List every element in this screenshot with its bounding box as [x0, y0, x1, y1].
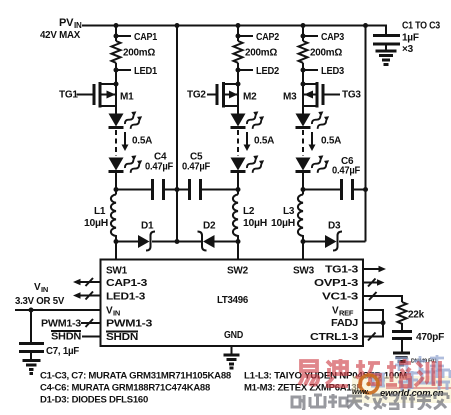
svg-text:TG1-3: TG1-3 [325, 265, 359, 276]
svg-text:CAP3: CAP3 [321, 32, 345, 43]
ground for C7 [23, 361, 41, 374]
inductor L2 10uH [233, 195, 267, 242]
inductor L3 10uH [271, 195, 303, 242]
svg-text:LED1: LED1 [134, 66, 158, 77]
svg-text:C1 TO C3: C1 TO C3 [402, 21, 441, 32]
ground for C1-C3 [376, 51, 397, 65]
wire ch1 to SW1 [115, 242, 117, 261]
capacitor C5 [177, 152, 238, 201]
svg-text:GND: GND [224, 330, 243, 341]
junction on rail ch2 [236, 23, 241, 28]
svg-text:VC1-3: VC1-3 [322, 292, 359, 303]
transistor M2 (PMOS) [187, 82, 257, 108]
svg-text:1µF: 1µF [402, 33, 419, 44]
resistor R2 200mOhm [234, 41, 243, 63]
wire ch2 to SW2 [237, 242, 239, 261]
capacitor C6 [303, 156, 366, 200]
LED D-ch1-a [109, 109, 144, 131]
watermark red char 4 [386, 359, 411, 386]
pin GND [224, 330, 243, 355]
current arrow 0.5A ch2 [244, 132, 275, 151]
node VIN external [29, 308, 34, 313]
svg-text:200mΩ: 200mΩ [310, 48, 342, 59]
svg-text:M3: M3 [283, 92, 297, 103]
watermark pale panel [352, 376, 451, 403]
node VIN label [15, 282, 65, 307]
watermark red char 3 [356, 360, 380, 386]
svg-text:M2: M2 [243, 92, 257, 103]
LED D-ch3-b [296, 153, 331, 175]
wire ch3 column top [302, 26, 304, 42]
pin PWM1-3 [41, 319, 153, 330]
svg-text:C1-C3, C7: MURATA GRM31MR71H10: C1-C3, C7: MURATA GRM31MR71H105KA88 [40, 371, 231, 382]
node ch3 SW/diode row [301, 239, 306, 244]
pin VC1-3 [322, 292, 402, 303]
svg-text:0.5A: 0.5A [132, 136, 152, 147]
svg-text:CTRL1-3: CTRL1-3 [310, 332, 359, 343]
pin VIN [15, 306, 120, 318]
svg-text:0.47µF: 0.47µF [182, 162, 210, 173]
wire dashed LED string ch3 [302, 130, 304, 156]
node CAP1 [114, 34, 119, 39]
svg-text:PWM1-3: PWM1-3 [106, 319, 153, 330]
svg-text:IN: IN [113, 309, 120, 318]
node ch2 cap row [236, 187, 241, 192]
node ch2 SW/diode row [236, 239, 241, 244]
pin FADJ [331, 318, 386, 329]
svg-text:V: V [34, 282, 41, 293]
svg-text:TG2: TG2 [187, 90, 206, 101]
junction on rail ch3 [301, 23, 306, 28]
watermark blue glyphs upper [395, 355, 444, 372]
svg-text:0.5A: 0.5A [254, 136, 274, 147]
wire R1 to M1 source [115, 63, 117, 114]
pin SHDN [51, 331, 138, 343]
pin CTRL1-3 [310, 323, 383, 343]
watermark red char 1 [299, 361, 318, 386]
ground for GND pin [224, 355, 240, 368]
svg-text:M1: M1 [120, 92, 134, 103]
svg-text:SHDN: SHDN [51, 332, 81, 343]
LED D-ch2-b [231, 153, 266, 175]
node CAP3 [301, 34, 306, 39]
svg-text:C7, 1µF: C7, 1µF [46, 346, 79, 357]
svg-text:200mΩ: 200mΩ [245, 48, 277, 59]
svg-text:470pF: 470pF [416, 332, 444, 343]
pin VREF [332, 306, 383, 323]
wire R2 to M2 [237, 63, 239, 114]
svg-text:IN: IN [41, 285, 48, 294]
svg-text:IN: IN [74, 21, 82, 30]
svg-text:D3: D3 [328, 221, 341, 232]
IC U1 LT3496 box [101, 260, 364, 347]
diode D1 (schottky) [116, 221, 177, 251]
svg-text:0.47µF: 0.47µF [332, 166, 360, 177]
svg-text:3.3V OR 5V: 3.3V OR 5V [15, 296, 65, 307]
resistor R1 200mOhm [112, 41, 121, 63]
wire LED string bottom to cap row ch3 [302, 172, 304, 195]
node ch3 cap row [301, 187, 306, 192]
junction on rail right line [363, 23, 368, 28]
inductor L1 10uH [84, 195, 116, 242]
svg-text:CAP1: CAP1 [134, 32, 158, 43]
capacitor C4 [116, 152, 177, 201]
svg-text:SW2: SW2 [227, 266, 249, 277]
diode D2 (schottky) [177, 221, 238, 251]
wire dashed LED string ch2 [237, 130, 239, 156]
wire R3 to M3 [302, 63, 304, 114]
svg-text:10µH: 10µH [243, 218, 267, 229]
node ch1 SW/diode row [114, 239, 119, 244]
svg-text:C4-C6: MURATA GRM188R71C474KA8: C4-C6: MURATA GRM188R71C474KA88 [40, 383, 210, 394]
wire dashed LED string ch1 [115, 130, 117, 156]
pin CAP1-3 [73, 278, 148, 289]
svg-text:V: V [332, 306, 339, 317]
pin TG1-3 [325, 265, 386, 276]
svg-text:LED3: LED3 [321, 66, 345, 77]
node diode row mid line [175, 239, 180, 244]
svg-text:TG1: TG1 [59, 90, 78, 101]
node cap row right line [363, 187, 368, 192]
svg-text:10µH: 10µH [84, 218, 108, 229]
transistor M1 (PMOS) [59, 82, 134, 108]
svg-text:×3: ×3 [402, 44, 414, 55]
svg-text:PWM1-3: PWM1-3 [41, 319, 82, 330]
wire mid vertical line (D1/D2 cathode return to PVIN) [176, 26, 178, 242]
svg-text:SW3: SW3 [293, 266, 315, 277]
svg-text:CAP1-3: CAP1-3 [106, 278, 148, 289]
svg-text:L3: L3 [283, 206, 295, 217]
wire LED string bottom to cap row ch2 [237, 172, 239, 195]
watermark red char 2 [326, 359, 348, 386]
svg-text:FADJ: FADJ [331, 318, 358, 329]
node ch1 cap row [114, 187, 119, 192]
svg-text:CAP2: CAP2 [256, 32, 280, 43]
capacitor 470pF [392, 327, 444, 353]
junction on rail ch1 [114, 23, 119, 28]
ground for 470pF [393, 353, 410, 365]
LED D-ch1-b [109, 153, 144, 175]
wire ch2 column top [237, 26, 239, 42]
resistor R 22k [398, 302, 425, 327]
pin OVP1-3 [314, 278, 385, 289]
svg-text:LED2: LED2 [256, 66, 280, 77]
watermark orange ring logo [352, 375, 444, 399]
note BOM text [40, 371, 407, 406]
svg-text:10µH: 10µH [271, 218, 295, 229]
svg-text:0.5A: 0.5A [321, 136, 341, 147]
svg-text:D2: D2 [203, 221, 216, 232]
transistor M3 (PMOS, mirrored) [283, 82, 361, 108]
node PVIN label [40, 17, 82, 41]
node CAP2 [236, 34, 241, 39]
svg-text:L2: L2 [243, 206, 255, 217]
svg-text:D1-D3: DIODES DFLS160: D1-D3: DIODES DFLS160 [40, 395, 148, 406]
wire right vertical line (D3 cathode return to PVIN) [365, 26, 367, 242]
pin LED1-3 [73, 292, 146, 303]
wire ch1 column top [115, 26, 117, 42]
LED D-ch3-a [296, 109, 331, 131]
svg-text:LT3496: LT3496 [217, 295, 249, 306]
svg-text:SW1: SW1 [106, 266, 128, 277]
svg-text:REF: REF [339, 309, 354, 318]
svg-text:200mΩ: 200mΩ [123, 48, 155, 59]
svg-text:0.47µF: 0.47µF [145, 162, 173, 173]
watermark red char 5 [415, 361, 440, 386]
wire LED string bottom to cap row [115, 172, 117, 195]
svg-text:TG3: TG3 [342, 90, 361, 101]
svg-text:OVP1-3: OVP1-3 [314, 278, 359, 289]
capacitor C7 1uF [19, 310, 79, 360]
svg-text:PV: PV [59, 17, 74, 29]
junction on rail mid line [175, 23, 180, 28]
svg-text:L1: L1 [94, 206, 106, 217]
node LED1 [114, 68, 119, 73]
watermark blue glyphs main [371, 368, 450, 391]
svg-text:42V MAX: 42V MAX [40, 30, 81, 41]
LED D-ch2-a [231, 109, 266, 131]
resistor R3 200mOhm [299, 41, 308, 63]
node cap row mid line [175, 187, 180, 192]
node LED2 [236, 68, 241, 73]
diode D3 (schottky) [303, 221, 366, 251]
watermark gray text row [292, 394, 448, 410]
svg-text:LED1-3: LED1-3 [106, 292, 146, 303]
svg-text:V: V [106, 306, 113, 317]
node LED3 [301, 68, 306, 73]
svg-text:SHDN: SHDN [106, 332, 138, 343]
wire ch3 to SW3 [302, 242, 304, 261]
current arrow 0.5A ch3 [309, 132, 342, 151]
svg-text:D1: D1 [141, 221, 154, 232]
svg-text:22k: 22k [408, 310, 425, 321]
capacitor C1-C3 1uF [373, 21, 441, 56]
current arrow 0.5A ch1 [122, 132, 153, 151]
wire PVIN top rail [82, 26, 386, 36]
